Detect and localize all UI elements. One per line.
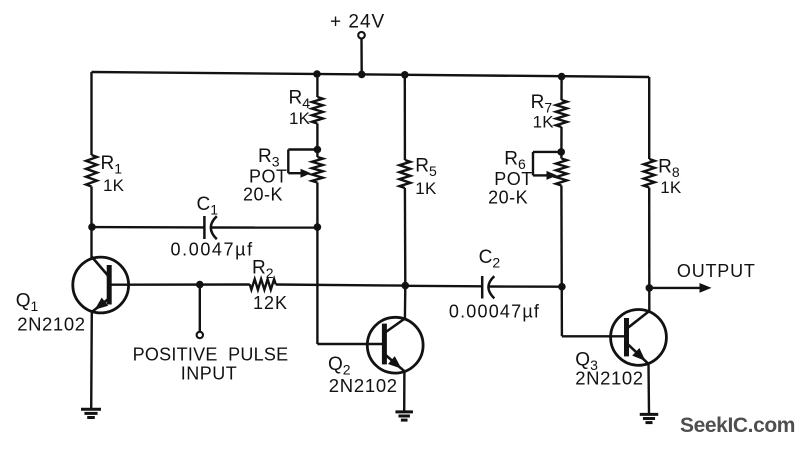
svg-text:SeekIC.com: SeekIC.com — [680, 414, 795, 437]
svg-text:20-K: 20-K — [488, 188, 528, 208]
svg-text:POSITIVE PULSE: POSITIVE PULSE — [133, 345, 289, 365]
svg-text:12K: 12K — [253, 293, 288, 313]
svg-text:0.00047µf: 0.00047µf — [449, 302, 540, 322]
svg-text:INPUT: INPUT — [181, 364, 238, 384]
svg-text:1K: 1K — [289, 109, 311, 128]
svg-text:+ 24V: + 24V — [330, 12, 385, 33]
svg-text:OUTPUT: OUTPUT — [677, 261, 756, 281]
svg-text:POT: POT — [494, 169, 533, 189]
svg-text:20-K: 20-K — [243, 185, 283, 205]
svg-text:0.0047µf: 0.0047µf — [171, 240, 254, 260]
svg-text:1K: 1K — [660, 178, 682, 197]
svg-text:POT: POT — [249, 167, 288, 187]
svg-text:2N2102: 2N2102 — [575, 368, 643, 389]
svg-text:1K: 1K — [533, 113, 555, 132]
svg-text:1K: 1K — [103, 176, 125, 195]
svg-text:1K: 1K — [415, 179, 437, 198]
svg-text:2N2102: 2N2102 — [329, 375, 398, 396]
svg-text:2N2102: 2N2102 — [17, 314, 85, 335]
